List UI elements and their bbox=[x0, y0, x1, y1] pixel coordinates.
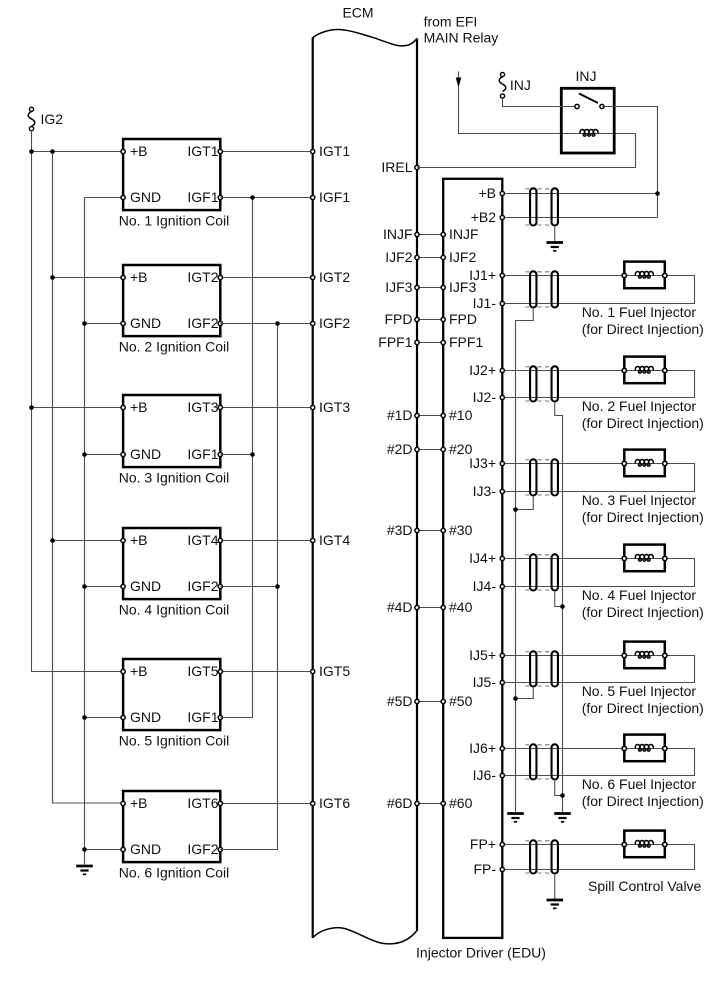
wire shield drain injector 6 bbox=[555, 780, 563, 796]
noise filter injector 4 bbox=[525, 554, 558, 590]
wire IGT5 coil 5 to ECM bbox=[220, 671, 312, 673]
junction ground bus / coil 2 GND bbox=[82, 321, 87, 326]
wire spill control valve return to FP- bbox=[502, 845, 694, 870]
ECM terminal INJF bbox=[415, 232, 419, 236]
svg-text:IGT2: IGT2 bbox=[187, 269, 218, 285]
fuel injector No.5 left terminal bbox=[622, 653, 626, 657]
svg-text:FPF1: FPF1 bbox=[449, 334, 483, 350]
EDU terminal #50 bbox=[441, 699, 445, 703]
wire IGT6 coil 6 to ECM bbox=[220, 803, 312, 805]
svg-text:ECM: ECM bbox=[342, 5, 373, 21]
ECM terminal #3D bbox=[415, 528, 419, 532]
svg-text:+B: +B bbox=[130, 269, 148, 285]
svg-text:(for Direct Injection): (for Direct Injection) bbox=[582, 793, 704, 809]
ECM terminal IGF2 bbox=[311, 321, 315, 325]
junction bus B / coil 2 +B bbox=[50, 275, 55, 280]
junction ground bus / coil 3 GND bbox=[82, 452, 87, 457]
svg-text:No. 5 Fuel Injector: No. 5 Fuel Injector bbox=[582, 683, 697, 699]
svg-text:IGT3: IGT3 bbox=[187, 399, 218, 415]
svg-text:INJ: INJ bbox=[510, 77, 531, 93]
wire FP+ to spill control valve bbox=[502, 844, 624, 846]
ECM terminal IGT5 bbox=[311, 669, 315, 673]
connector IG2 bbox=[28, 107, 35, 131]
ground symbol +B filter bbox=[546, 243, 563, 251]
fuel injector No.2 bbox=[624, 357, 665, 384]
wire INJF ECM to EDU bbox=[417, 234, 443, 236]
wire IREL to relay coil bbox=[417, 134, 636, 168]
svg-text:IJ5+: IJ5+ bbox=[469, 647, 496, 663]
EDU terminal +B2 bbox=[500, 215, 504, 219]
wire #1D ECM to EDU bbox=[417, 415, 443, 417]
svg-text:INJF: INJF bbox=[383, 226, 413, 242]
svg-text:#6D: #6D bbox=[387, 795, 413, 811]
ECM terminal #1D bbox=[415, 413, 419, 417]
ignition coil box No.1 bbox=[123, 139, 220, 210]
svg-text:+B: +B bbox=[130, 663, 148, 679]
terminal IGT1 coil 1 bbox=[218, 149, 222, 153]
svg-text:IJ2+: IJ2+ bbox=[469, 362, 496, 378]
svg-text:#60: #60 bbox=[449, 795, 473, 811]
Injector Driver EDU box bbox=[443, 179, 502, 938]
junction bus B / coil 4 +B bbox=[50, 538, 55, 543]
junction ground bus / coil 5 GND bbox=[82, 715, 87, 720]
wire shield drain injector 3 bbox=[516, 496, 534, 510]
svg-text:FP+: FP+ bbox=[470, 836, 496, 852]
svg-text:(for Direct Injection): (for Direct Injection) bbox=[582, 604, 704, 620]
svg-text:No. 2 Ignition Coil: No. 2 Ignition Coil bbox=[119, 339, 230, 355]
terminal +B coil 5 bbox=[121, 669, 125, 673]
spill control valve left terminal bbox=[622, 842, 626, 846]
ground symbol right shield drain bus bbox=[554, 814, 571, 822]
EDU terminal FPD bbox=[441, 317, 445, 321]
terminal GND coil 5 bbox=[121, 715, 125, 719]
terminal IGF2 coil 4 bbox=[218, 584, 222, 588]
wire #6D ECM to EDU bbox=[417, 803, 443, 805]
svg-text:FPD: FPD bbox=[449, 311, 477, 327]
ECM wavy bottom edge bbox=[313, 928, 417, 944]
wire injector 5 return to IJ5- bbox=[502, 656, 694, 683]
wire +B feed coil 3 bbox=[32, 407, 124, 409]
svg-text:IJ4+: IJ4+ bbox=[469, 550, 496, 566]
svg-text:IJ6-: IJ6- bbox=[473, 767, 497, 783]
ground symbol left shield drain bus bbox=[507, 814, 524, 822]
fuel injector No.1 right terminal bbox=[663, 273, 667, 277]
terminal IGT4 coil 4 bbox=[218, 538, 222, 542]
svg-text:MAIN Relay: MAIN Relay bbox=[424, 30, 499, 46]
wire GND coil 6 to ground bus bbox=[85, 849, 124, 851]
svg-text:#4D: #4D bbox=[387, 599, 413, 615]
wire bus IG2 feed to No.5 coil +B bbox=[32, 131, 124, 672]
svg-text:+B: +B bbox=[130, 399, 148, 415]
svg-text:from EFI: from EFI bbox=[424, 14, 478, 30]
junction IG2 bus / coil 3 +B bbox=[29, 405, 34, 410]
terminal IGT5 coil 5 bbox=[218, 669, 222, 673]
svg-text:IGT4: IGT4 bbox=[319, 532, 350, 548]
ECM terminal FPD bbox=[415, 317, 419, 321]
ECM wavy top edge bbox=[313, 30, 417, 46]
svg-text:IGT1: IGT1 bbox=[187, 143, 218, 159]
fuel injector No.3 right terminal bbox=[663, 461, 667, 465]
relay switch blade bbox=[579, 94, 598, 104]
ECM terminal IGT1 bbox=[311, 149, 315, 153]
terminal IGT3 coil 3 bbox=[218, 405, 222, 409]
EDU terminal IJ1- bbox=[500, 301, 504, 305]
EDU terminal IJ3+ bbox=[500, 461, 504, 465]
EDU terminal IJ2+ bbox=[500, 368, 504, 372]
svg-text:IGF2: IGF2 bbox=[187, 315, 218, 331]
svg-text:FP-: FP- bbox=[473, 861, 496, 877]
ignition coil box No.6 bbox=[123, 791, 220, 862]
svg-text:INJF: INJF bbox=[449, 226, 479, 242]
wire +B filter shield to ground bbox=[554, 226, 556, 242]
fuel injector No.1 bbox=[624, 262, 665, 289]
svg-text:IJF2: IJF2 bbox=[385, 249, 412, 265]
junction IGF1 bus / coil 3 IGF1 wire bbox=[250, 452, 255, 457]
ECM terminal IREL bbox=[415, 165, 419, 169]
svg-text:IGF1: IGF1 bbox=[187, 709, 218, 725]
ECM terminal #5D bbox=[415, 699, 419, 703]
wire IGT4 coil 4 to ECM bbox=[220, 540, 312, 542]
noise filter injector 3 bbox=[525, 459, 558, 495]
noise filter injector 5 bbox=[525, 651, 558, 686]
wire injector 4 return to IJ4- bbox=[502, 559, 694, 587]
terminal IGT2 coil 2 bbox=[218, 275, 222, 279]
svg-text:IJ1+: IJ1+ bbox=[469, 267, 496, 283]
wire IJ4+ to injector 4 bbox=[502, 558, 624, 560]
terminal IGF1 coil 1 bbox=[218, 195, 222, 199]
noise filter injector 2 bbox=[525, 366, 558, 401]
svg-text:#5D: #5D bbox=[387, 693, 413, 709]
svg-text:IGT1: IGT1 bbox=[319, 143, 350, 159]
EDU terminal INJF bbox=[441, 232, 445, 236]
ignition coil box No.3 bbox=[123, 395, 220, 467]
EDU terminal FP- bbox=[500, 867, 504, 871]
svg-text:IGT6: IGT6 bbox=[187, 795, 218, 811]
svg-text:IG2: IG2 bbox=[41, 111, 64, 127]
wire EDU +B2 bbox=[502, 217, 657, 219]
wire GND coil 1 to ground bus bbox=[85, 197, 124, 199]
fuel injector No.3 left terminal bbox=[622, 461, 626, 465]
wire #4D ECM to EDU bbox=[417, 607, 443, 609]
junction IGF1 bus / coil 1 IGF1 wire bbox=[250, 195, 255, 200]
svg-text:Spill Control Valve: Spill Control Valve bbox=[588, 878, 702, 894]
EDU terminal IJ6+ bbox=[500, 746, 504, 750]
svg-text:No. 6 Fuel Injector: No. 6 Fuel Injector bbox=[582, 776, 697, 792]
svg-text:IREL: IREL bbox=[381, 159, 412, 175]
junction right drain bus / injector 6 shield bbox=[560, 793, 565, 798]
ECM terminal #4D bbox=[415, 605, 419, 609]
junction right drain bus / injector 4 shield bbox=[560, 604, 565, 609]
svg-text:IGF2: IGF2 bbox=[187, 578, 218, 594]
wire FPD ECM to EDU bbox=[417, 319, 443, 321]
wire IGT3 coil 3 to ECM bbox=[220, 407, 312, 409]
fuel injector No.6 coil winding bbox=[635, 744, 653, 751]
ground symbol FP filter bbox=[546, 900, 563, 908]
svg-text:(for Direct Injection): (for Direct Injection) bbox=[582, 321, 704, 337]
svg-text:+B: +B bbox=[130, 532, 148, 548]
fuel injector No.6 bbox=[624, 735, 665, 762]
wire shield drain injector 5 bbox=[516, 687, 534, 699]
EDU terminal IJ6- bbox=[500, 773, 504, 777]
svg-text:IGF2: IGF2 bbox=[187, 841, 218, 857]
svg-text:+B: +B bbox=[130, 795, 148, 811]
svg-text:#2D: #2D bbox=[387, 441, 413, 457]
svg-text:FPD: FPD bbox=[385, 311, 413, 327]
fuel injector No.3 bbox=[624, 450, 665, 477]
EDU terminal #40 bbox=[441, 605, 445, 609]
svg-text:IJF3: IJF3 bbox=[385, 279, 412, 295]
terminal +B coil 6 bbox=[121, 801, 125, 805]
EDU terminal +B bbox=[500, 191, 504, 195]
fuel injector No.2 coil winding bbox=[635, 366, 653, 373]
svg-text:No. 4 Ignition Coil: No. 4 Ignition Coil bbox=[119, 602, 230, 618]
terminal IGF1 coil 5 bbox=[218, 715, 222, 719]
svg-text:IJ2-: IJ2- bbox=[473, 389, 497, 405]
fuel injector No.5 coil winding bbox=[635, 651, 653, 658]
terminal GND coil 2 bbox=[121, 321, 125, 325]
ECM box left edge bbox=[312, 38, 314, 938]
fuel injector No.4 left terminal bbox=[622, 556, 626, 560]
EDU terminal #10 bbox=[441, 413, 445, 417]
ignition coil box No.5 bbox=[123, 659, 220, 730]
spill control valve right terminal bbox=[663, 842, 667, 846]
wire GND coil 2 to ground bus bbox=[85, 323, 124, 325]
wire FP filter shield to ground bbox=[554, 874, 556, 900]
terminal IGF2 coil 2 bbox=[218, 321, 222, 325]
wire #3D ECM to EDU bbox=[417, 530, 443, 532]
svg-text:GND: GND bbox=[130, 841, 161, 857]
svg-text:#1D: #1D bbox=[387, 407, 413, 423]
wire INJ connector to relay switch bbox=[503, 98, 578, 106]
fuel injector No.5 bbox=[624, 642, 665, 669]
terminal +B coil 2 bbox=[121, 275, 125, 279]
svg-text:#3D: #3D bbox=[387, 522, 413, 538]
ECM terminal IGT6 bbox=[311, 801, 315, 805]
svg-text:No. 3 Fuel Injector: No. 3 Fuel Injector bbox=[582, 492, 697, 508]
wire shield drain injector 1 and left drain bus bbox=[516, 308, 534, 813]
junction IGF2 bus / coil 2 IGF2 wire bbox=[275, 321, 280, 326]
ECM terminal FPF1 bbox=[415, 340, 419, 344]
wire IGF1 coil 1 to ECM bbox=[220, 197, 312, 199]
svg-text:No. 5 Ignition Coil: No. 5 Ignition Coil bbox=[119, 733, 230, 749]
terminal IGF2 coil 6 bbox=[218, 847, 222, 851]
noise filter injector 6 bbox=[525, 744, 558, 779]
svg-text:IGF1: IGF1 bbox=[187, 189, 218, 205]
fuel injector No.4 coil winding bbox=[635, 554, 653, 561]
junction IGF2 bus / coil 4 IGF2 wire bbox=[275, 584, 280, 589]
terminal +B coil 4 bbox=[121, 538, 125, 542]
spill control valve coil winding bbox=[635, 840, 653, 847]
EDU terminal IJF3 bbox=[441, 285, 445, 289]
terminal GND coil 3 bbox=[121, 452, 125, 456]
fuel injector No.1 coil winding bbox=[635, 271, 653, 278]
EDU terminal IJF2 bbox=[441, 255, 445, 259]
wire IGT2 coil 2 to ECM bbox=[220, 277, 312, 279]
wire IJF3 ECM to EDU bbox=[417, 287, 443, 289]
fuel injector No.6 right terminal bbox=[663, 746, 667, 750]
EDU terminal IJ4- bbox=[500, 584, 504, 588]
relay coil winding bbox=[580, 129, 598, 136]
arrowhead on EFI MAIN Relay wire bbox=[456, 78, 462, 88]
wire IGT1 coil 1 to ECM bbox=[220, 151, 312, 153]
svg-text:GND: GND bbox=[130, 578, 161, 594]
wire injector 6 return to IJ6- bbox=[502, 749, 694, 776]
svg-text:#40: #40 bbox=[449, 599, 473, 615]
EDU terminal FPF1 bbox=[441, 340, 445, 344]
relay switch contact left bbox=[575, 104, 579, 108]
ECM terminal IGF1 bbox=[311, 195, 315, 199]
wire IJ5+ to injector 5 bbox=[502, 655, 624, 657]
svg-text:IGF1: IGF1 bbox=[187, 446, 218, 462]
wire #2D ECM to EDU bbox=[417, 449, 443, 451]
EDU terminal IJ4+ bbox=[500, 556, 504, 560]
junction relay output / +B bbox=[655, 191, 660, 196]
svg-text:IGT3: IGT3 bbox=[319, 399, 350, 415]
svg-text:IJ4-: IJ4- bbox=[473, 578, 497, 594]
svg-text:IGT5: IGT5 bbox=[187, 663, 218, 679]
svg-text:GND: GND bbox=[130, 315, 161, 331]
relay switch contact right bbox=[600, 104, 604, 108]
svg-text:IJ1-: IJ1- bbox=[473, 295, 497, 311]
svg-text:IGT2: IGT2 bbox=[319, 269, 350, 285]
svg-text:#30: #30 bbox=[449, 522, 473, 538]
terminal +B coil 3 bbox=[121, 405, 125, 409]
ignition coil box No.4 bbox=[123, 528, 220, 599]
ECM terminal #6D bbox=[415, 801, 419, 805]
svg-text:No. 1 Fuel Injector: No. 1 Fuel Injector bbox=[582, 304, 697, 320]
terminal IGT6 coil 6 bbox=[218, 801, 222, 805]
wire IJ2+ to injector 2 bbox=[502, 370, 624, 372]
fuel injector No.6 left terminal bbox=[622, 746, 626, 750]
noise filter FP bbox=[525, 840, 558, 873]
ECM box right edge bbox=[416, 39, 418, 931]
wire from EFI MAIN Relay to relay coil bbox=[459, 72, 598, 134]
wire injector 3 return to IJ3- bbox=[502, 464, 694, 492]
fuel injector No.5 right terminal bbox=[663, 653, 667, 657]
svg-text:IGT5: IGT5 bbox=[319, 663, 350, 679]
svg-text:#50: #50 bbox=[449, 693, 473, 709]
EDU terminal #20 bbox=[441, 447, 445, 451]
wire GND coil 4 to ground bus bbox=[85, 586, 124, 588]
wire #5D ECM to EDU bbox=[417, 701, 443, 703]
terminal GND coil 6 bbox=[121, 847, 125, 851]
junction left drain bus / injector 5 shield bbox=[513, 696, 518, 701]
wire +B feed coil 2 bbox=[53, 277, 124, 279]
wire IGF2 coil 2 to ECM bbox=[220, 323, 312, 325]
fuel injector No.2 left terminal bbox=[622, 368, 626, 372]
EDU terminal IJ5- bbox=[500, 680, 504, 684]
svg-text:IJ6+: IJ6+ bbox=[469, 740, 496, 756]
svg-text:IJF2: IJF2 bbox=[449, 249, 476, 265]
ECM terminal IJF3 bbox=[415, 285, 419, 289]
svg-text:No. 4 Fuel Injector: No. 4 Fuel Injector bbox=[582, 587, 697, 603]
fuel injector No.3 coil winding bbox=[635, 459, 653, 466]
ECM terminal #2D bbox=[415, 447, 419, 451]
svg-text:No. 2 Fuel Injector: No. 2 Fuel Injector bbox=[582, 398, 697, 414]
wire GND coil 3 to ground bus bbox=[85, 454, 124, 456]
svg-text:IJ3+: IJ3+ bbox=[469, 455, 496, 471]
svg-text:#10: #10 bbox=[449, 407, 473, 423]
wire IGF1 coil 3 to IGF1 bus bbox=[220, 454, 252, 456]
fuel injector No.4 right terminal bbox=[663, 556, 667, 560]
fuel injector No.4 bbox=[624, 545, 665, 572]
EDU terminal IJ3- bbox=[500, 489, 504, 493]
terminal +B coil 1 bbox=[121, 149, 125, 153]
wire injector 2 return to IJ2- bbox=[502, 371, 694, 398]
wire IJ1+ to injector 1 bbox=[502, 275, 624, 277]
junction left drain bus / injector 3 shield bbox=[513, 507, 518, 512]
wire IGF2 bus (coils 2,4,6) bbox=[220, 324, 277, 850]
wire shield drain injector 2 and right drain bus bbox=[555, 402, 563, 813]
ECM terminal IGT3 bbox=[311, 405, 315, 409]
svg-text:No. 3 Ignition Coil: No. 3 Ignition Coil bbox=[119, 470, 230, 486]
svg-text:GND: GND bbox=[130, 189, 161, 205]
wire IJ3+ to injector 3 bbox=[502, 463, 624, 465]
wire EDU +B bbox=[502, 193, 657, 195]
svg-text:FPF1: FPF1 bbox=[378, 334, 412, 350]
fuel injector No.1 left terminal bbox=[622, 273, 626, 277]
wire GND coil 5 to ground bus bbox=[85, 717, 124, 719]
wire shield drain injector 4 bbox=[555, 591, 563, 607]
svg-text:No. 6 Ignition Coil: No. 6 Ignition Coil bbox=[119, 865, 230, 881]
svg-text:(for Direct Injection): (for Direct Injection) bbox=[582, 700, 704, 716]
wire IJF2 ECM to EDU bbox=[417, 257, 443, 259]
spill control valve bbox=[624, 831, 665, 858]
noise filter injector 1 bbox=[525, 271, 558, 307]
svg-text:+B2: +B2 bbox=[471, 209, 497, 225]
noise filter +B/+B2 bbox=[525, 188, 558, 225]
svg-text:No. 1 Ignition Coil: No. 1 Ignition Coil bbox=[119, 213, 230, 229]
terminal GND coil 1 bbox=[121, 195, 125, 199]
connector INJ bbox=[499, 72, 506, 98]
wire injector 1 return to IJ1- bbox=[502, 276, 694, 304]
svg-text:IGT6: IGT6 bbox=[319, 795, 350, 811]
relay INJ box bbox=[561, 88, 614, 153]
svg-text:IGF1: IGF1 bbox=[319, 189, 350, 205]
fuel injector No.2 right terminal bbox=[663, 368, 667, 372]
EDU terminal FP+ bbox=[500, 842, 504, 846]
svg-text:+B: +B bbox=[130, 143, 148, 159]
wire IGF2 coil 4 to IGF2 bus bbox=[220, 586, 277, 588]
EDU terminal IJ1+ bbox=[500, 273, 504, 277]
junction ground bus / coil 4 GND bbox=[82, 584, 87, 589]
ignition coil box No.2 bbox=[123, 265, 220, 336]
svg-text:Injector Driver (EDU): Injector Driver (EDU) bbox=[416, 945, 546, 961]
EDU terminal IJ2- bbox=[500, 395, 504, 399]
svg-text:IJ5-: IJ5- bbox=[473, 674, 497, 690]
wire +B feed coil 1 bbox=[32, 151, 124, 153]
wire IJ6+ to injector 6 bbox=[502, 748, 624, 750]
EDU terminal IJ5+ bbox=[500, 653, 504, 657]
terminal IGF1 coil 3 bbox=[218, 452, 222, 456]
ground symbol ignition coils bbox=[76, 866, 93, 874]
ECM terminal IGT4 bbox=[311, 538, 315, 542]
svg-text:IGT4: IGT4 bbox=[187, 532, 218, 548]
wire bus +B feed to No.6 coil +B bbox=[53, 152, 124, 804]
svg-text:GND: GND bbox=[130, 446, 161, 462]
ECM terminal IJF2 bbox=[415, 255, 419, 259]
EDU terminal #60 bbox=[441, 801, 445, 805]
svg-text:IJ3-: IJ3- bbox=[473, 483, 497, 499]
svg-text:(for Direct Injection): (for Direct Injection) bbox=[582, 415, 704, 431]
wire ignition coil ground bus bbox=[84, 198, 86, 865]
wire +B feed coil 4 bbox=[53, 540, 124, 542]
svg-text:(for Direct Injection): (for Direct Injection) bbox=[582, 509, 704, 525]
EDU terminal #30 bbox=[441, 528, 445, 532]
svg-text:+B: +B bbox=[478, 185, 496, 201]
wire relay output to +B/+B2 bbox=[602, 107, 658, 218]
wire FPF1 ECM to EDU bbox=[417, 342, 443, 344]
